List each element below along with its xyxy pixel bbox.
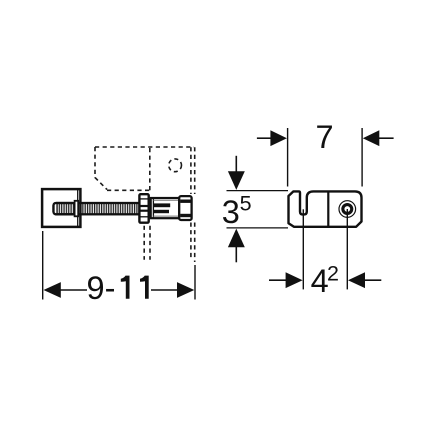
svg-text:9-: 9- (87, 270, 116, 306)
bracket screw hole (339, 201, 356, 218)
ceramic inner wall dashed line (below bolt) (149, 226, 151, 260)
dimension label digit 1 (first) (121, 276, 130, 299)
dimension 7 right extension line (361, 128, 363, 187)
threaded rod left segment with dome end (54, 203, 76, 214)
anchor expansion cap (179, 196, 191, 220)
anchor sleeve body with expansion slots (151, 198, 180, 218)
ceramic right face dashed line (outer, above bolt) (194, 147, 196, 194)
dimension 4.2 left leader line from hook (302, 209, 304, 289)
ceramic outline bottom dashed edge (107, 189, 150, 191)
dimension 4.2 left tail line (269, 279, 287, 281)
dimension 7 right tail line (379, 137, 394, 139)
svg-text:5: 5 (240, 192, 252, 216)
svg-text:4: 4 (311, 263, 329, 299)
dimension 7 left tail line (257, 137, 272, 139)
dimension 7 left arrowhead (270, 130, 287, 146)
svg-text:7: 7 (315, 119, 333, 155)
dimension 7 left extension line (287, 128, 289, 187)
dimension 7 right arrowhead (363, 130, 380, 146)
dimension 3.5 bottom arrowhead (228, 229, 245, 248)
dimension 9-11 left extension line (42, 231, 44, 300)
dimension 3.5 bottom tail line (235, 247, 237, 263)
dimension 3.5 top extension line (227, 190, 289, 192)
dimension 3.5 bottom extension line (227, 227, 289, 229)
dimension 4.2 left arrowhead (286, 272, 303, 288)
dimension 4.2 right leader line from hole (346, 209, 348, 289)
ceramic outline left dashed edge with corner (95, 147, 107, 190)
knurled nut (139, 194, 148, 223)
ceramic right face dashed line (outer, below bolt) (194, 223, 196, 263)
ceramic hole hidden edge (below bolt, left) (143, 226, 145, 260)
dimension 4.2 right tail line (365, 279, 382, 281)
ceramic outline top dashed edge (95, 146, 194, 148)
dimension 3.5 top tail line (235, 156, 237, 172)
ceramic inner wall dashed line (above bolt) (149, 148, 151, 192)
bracket divider line (327, 191, 329, 226)
dimension label digit 1 (second) (140, 276, 149, 299)
dimension 3.5 top arrowhead (228, 171, 245, 190)
collar bushing on plate (75, 201, 79, 217)
dimension 9-11 right arrowhead (177, 282, 194, 298)
dimension 9-11 line left segment (60, 289, 87, 291)
svg-text:2: 2 (327, 261, 339, 285)
svg-text:3: 3 (222, 194, 240, 230)
dimension 9-11 right extension line (194, 265, 196, 300)
wall bracket outline with hook notch (289, 191, 362, 226)
ceramic dashed hole circle (169, 159, 182, 172)
square mounting plate (42, 189, 80, 227)
ceramic right face dashed line (inner, above bolt) (190, 147, 192, 194)
dimension 9-11 line right segment (151, 289, 178, 291)
dimension 9-11 left arrowhead (44, 282, 61, 298)
ceramic right face dashed line (inner, below bolt) (190, 223, 192, 260)
threaded rod middle segment (76, 203, 140, 214)
dimension 4.2 right arrowhead (348, 272, 365, 288)
